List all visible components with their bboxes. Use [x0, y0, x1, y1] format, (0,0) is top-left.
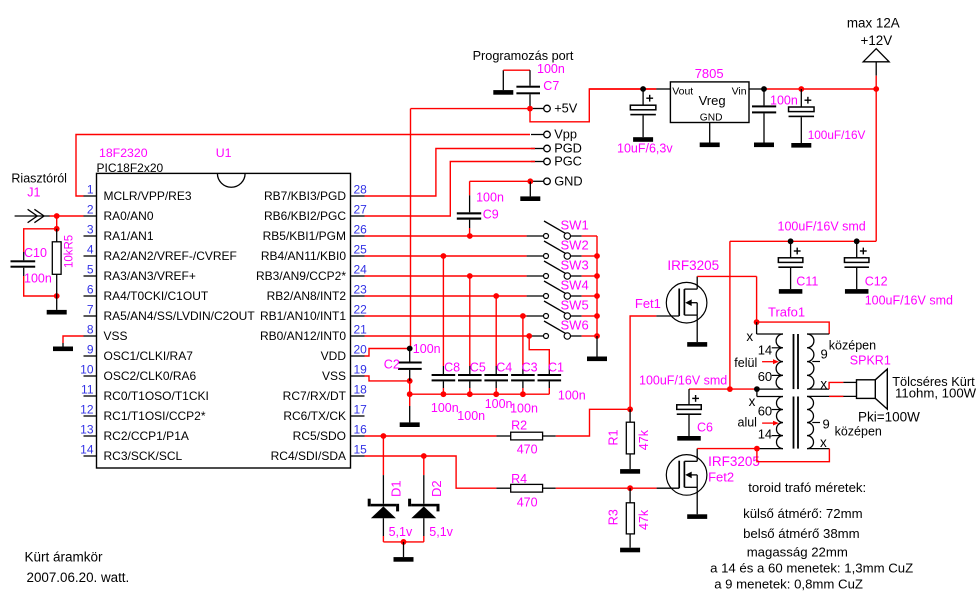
svg-text:U1: U1	[216, 146, 232, 160]
svg-text:max 12A: max 12A	[847, 15, 900, 30]
svg-text:SW6: SW6	[561, 318, 589, 333]
svg-text:23: 23	[354, 283, 368, 297]
svg-text:PGC: PGC	[554, 154, 582, 169]
svg-text:Riasztóról: Riasztóról	[11, 172, 67, 186]
svg-text:100n: 100n	[558, 389, 586, 403]
svg-text:100n: 100n	[431, 401, 459, 415]
svg-text:5,1v: 5,1v	[429, 525, 453, 539]
svg-text:RA0/AN0: RA0/AN0	[104, 209, 154, 223]
svg-text:PIC18F2x20: PIC18F2x20	[97, 161, 164, 175]
svg-text:RC1/T1OSI/CCP2*: RC1/T1OSI/CCP2*	[104, 409, 206, 423]
svg-text:100n: 100n	[413, 342, 441, 356]
svg-text:25: 25	[354, 243, 368, 257]
svg-text:20: 20	[354, 343, 368, 357]
svg-text:középen: középen	[835, 425, 882, 439]
svg-text:Vin: Vin	[732, 85, 747, 97]
svg-text:C11: C11	[796, 275, 818, 289]
svg-text:100uF/16V smd: 100uF/16V smd	[639, 374, 727, 388]
svg-text:toroid trafó méretek:: toroid trafó méretek:	[748, 480, 866, 495]
svg-text:RB2/AN8/INT2: RB2/AN8/INT2	[267, 289, 347, 303]
svg-text:RC4/SDI/SDA: RC4/SDI/SDA	[271, 449, 346, 463]
svg-text:100n: 100n	[476, 191, 504, 205]
svg-text:x: x	[820, 435, 827, 450]
svg-text:J1: J1	[27, 186, 40, 200]
svg-text:C12: C12	[865, 275, 888, 289]
svg-text:MCLR/VPP/RE3: MCLR/VPP/RE3	[104, 189, 192, 203]
svg-text:2007.06.20. watt.: 2007.06.20. watt.	[27, 570, 130, 585]
svg-text:a 9 menetek: 0,8mm CuZ: a 9 menetek: 0,8mm CuZ	[714, 576, 863, 591]
svg-text:100uF/16V smd: 100uF/16V smd	[865, 294, 953, 308]
svg-text:R5: R5	[64, 235, 76, 250]
svg-text:Vreg: Vreg	[699, 93, 726, 108]
svg-text:10k: 10k	[64, 249, 76, 268]
svg-text:26: 26	[354, 223, 368, 237]
svg-text:alul: alul	[738, 416, 757, 430]
svg-text:OSC2/CLK0/RA6: OSC2/CLK0/RA6	[104, 369, 197, 383]
svg-text:11ohm, 100W: 11ohm, 100W	[895, 386, 977, 401]
svg-text:28: 28	[354, 183, 368, 197]
svg-text:magasság 22mm: magasság 22mm	[747, 544, 848, 559]
svg-text:SPKR1: SPKR1	[850, 353, 891, 367]
svg-text:x: x	[820, 377, 827, 392]
svg-text:R2: R2	[511, 419, 527, 433]
svg-text:C2: C2	[384, 358, 400, 372]
svg-text:Vpp: Vpp	[554, 127, 577, 142]
svg-text:21: 21	[354, 323, 368, 337]
svg-text:18: 18	[354, 383, 368, 397]
svg-text:8: 8	[87, 323, 94, 337]
svg-text:x: x	[746, 329, 753, 344]
svg-text:60: 60	[758, 369, 772, 384]
svg-text:27: 27	[354, 203, 368, 217]
svg-text:7805: 7805	[695, 66, 724, 81]
svg-text:VSS: VSS	[104, 329, 128, 343]
svg-text:12: 12	[80, 403, 94, 417]
svg-text:Pki=100W: Pki=100W	[858, 410, 920, 425]
svg-text:IRF3205: IRF3205	[708, 454, 760, 469]
svg-text:Fet1: Fet1	[635, 296, 661, 311]
svg-text:RA4/T0CKI/C1OUT: RA4/T0CKI/C1OUT	[104, 289, 209, 303]
svg-text:RB3/AN9/CCP2*: RB3/AN9/CCP2*	[256, 269, 346, 283]
svg-text:+5V: +5V	[554, 101, 578, 116]
svg-text:RA1/AN1: RA1/AN1	[104, 229, 154, 243]
svg-text:22: 22	[354, 303, 368, 317]
svg-text:9: 9	[87, 343, 94, 357]
svg-text:14: 14	[80, 443, 94, 457]
svg-text:Trafo1: Trafo1	[768, 305, 805, 320]
svg-text:R4: R4	[511, 472, 527, 486]
svg-text:C5: C5	[470, 361, 486, 375]
svg-text:17: 17	[354, 403, 368, 417]
svg-text:13: 13	[80, 423, 94, 437]
svg-text:C10: C10	[24, 246, 47, 260]
svg-text:belső átmérő 38mm: belső átmérő 38mm	[743, 526, 860, 541]
svg-text:RB7/KBI3/PGD: RB7/KBI3/PGD	[264, 189, 346, 203]
svg-text:6: 6	[87, 283, 94, 297]
svg-text:+12V: +12V	[861, 33, 893, 48]
svg-text:10: 10	[80, 363, 94, 377]
svg-text:x: x	[749, 394, 756, 409]
svg-text:4: 4	[87, 243, 94, 257]
svg-text:RC3/SCK/SCL: RC3/SCK/SCL	[104, 449, 183, 463]
svg-text:C7: C7	[543, 79, 559, 93]
svg-text:100n: 100n	[537, 62, 565, 76]
svg-text:RC5/SDO: RC5/SDO	[293, 429, 346, 443]
svg-text:47k: 47k	[637, 509, 651, 530]
svg-text:7: 7	[87, 303, 94, 317]
svg-text:9: 9	[823, 417, 830, 432]
svg-text:D1: D1	[389, 480, 404, 497]
svg-text:16: 16	[354, 423, 368, 437]
svg-text:D2: D2	[429, 480, 444, 497]
svg-text:SW4: SW4	[561, 278, 589, 293]
svg-text:470: 470	[517, 442, 538, 456]
svg-text:100n: 100n	[770, 94, 798, 108]
svg-text:IRF3205: IRF3205	[667, 258, 719, 273]
svg-text:RB0/AN12/INT0: RB0/AN12/INT0	[260, 329, 346, 343]
svg-text:RA3/AN3/VREF+: RA3/AN3/VREF+	[104, 269, 196, 283]
svg-text:100uF/16V smd: 100uF/16V smd	[778, 220, 866, 234]
svg-text:RB5/KBI1/PGM: RB5/KBI1/PGM	[263, 229, 346, 243]
svg-text:külső átmérő: 72mm: külső átmérő: 72mm	[743, 506, 862, 521]
svg-text:R3: R3	[607, 509, 621, 525]
svg-text:C9: C9	[483, 207, 499, 221]
svg-text:felül: felül	[734, 356, 757, 370]
svg-text:SW3: SW3	[561, 258, 589, 273]
svg-text:SW1: SW1	[561, 218, 589, 233]
svg-text:15: 15	[354, 443, 368, 457]
svg-text:RB6/KBI2/PGC: RB6/KBI2/PGC	[264, 209, 346, 223]
svg-text:18F2320: 18F2320	[99, 146, 148, 160]
svg-text:RC2/CCP1/P1A: RC2/CCP1/P1A	[104, 429, 189, 443]
svg-text:100n: 100n	[510, 401, 538, 415]
svg-text:470: 470	[517, 496, 538, 510]
svg-text:Programozás port: Programozás port	[473, 49, 574, 63]
svg-text:2: 2	[87, 203, 94, 217]
svg-text:C8: C8	[444, 361, 460, 375]
svg-text:100uF/16V: 100uF/16V	[808, 128, 866, 142]
svg-text:RA5/AN4/SS/LVDIN/C2OUT: RA5/AN4/SS/LVDIN/C2OUT	[104, 309, 256, 323]
svg-text:RB4/AN11/KBI0: RB4/AN11/KBI0	[261, 249, 346, 263]
svg-text:10uF/6,3v: 10uF/6,3v	[617, 142, 673, 156]
svg-text:R1: R1	[607, 429, 621, 445]
svg-text:RC7/RX/DT: RC7/RX/DT	[283, 389, 347, 403]
svg-text:OSC1/CLKI/RA7: OSC1/CLKI/RA7	[104, 349, 194, 363]
svg-text:GND: GND	[700, 113, 723, 124]
svg-text:5: 5	[87, 263, 94, 277]
svg-text:Kürt áramkör: Kürt áramkör	[25, 550, 104, 565]
svg-text:11: 11	[81, 383, 94, 397]
svg-text:RC6/TX/CK: RC6/TX/CK	[283, 409, 346, 423]
svg-text:24: 24	[354, 263, 368, 277]
svg-text:C6: C6	[697, 421, 713, 435]
svg-text:60: 60	[758, 404, 772, 419]
svg-text:1: 1	[87, 183, 94, 197]
svg-text:GND: GND	[554, 173, 582, 188]
svg-text:RB1/AN10/INT1: RB1/AN10/INT1	[260, 309, 346, 323]
svg-text:a 14 és a 60 menetek: 1,3mm Cu: a 14 és a 60 menetek: 1,3mm CuZ	[710, 560, 913, 575]
svg-text:100n: 100n	[485, 397, 513, 411]
svg-text:VDD: VDD	[321, 349, 347, 363]
svg-text:9: 9	[821, 347, 828, 362]
svg-text:RC0/T1OSO/T1CKI: RC0/T1OSO/T1CKI	[104, 389, 209, 403]
svg-text:47k: 47k	[637, 429, 651, 450]
svg-text:100n: 100n	[457, 409, 485, 423]
svg-text:Vout: Vout	[672, 85, 693, 97]
svg-text:SW2: SW2	[561, 238, 589, 253]
svg-text:14: 14	[758, 427, 772, 442]
svg-text:középen: középen	[829, 339, 876, 353]
svg-text:14: 14	[758, 343, 772, 358]
svg-text:VSS: VSS	[322, 369, 346, 383]
svg-text:C1: C1	[548, 361, 564, 375]
svg-text:3: 3	[87, 223, 94, 237]
svg-text:RA2/AN2/VREF-/CVREF: RA2/AN2/VREF-/CVREF	[104, 249, 237, 263]
svg-text:Fet2: Fet2	[708, 470, 734, 485]
svg-text:19: 19	[354, 363, 368, 377]
svg-text:C4: C4	[496, 361, 512, 375]
svg-text:100n: 100n	[24, 272, 52, 286]
svg-text:5,1v: 5,1v	[389, 525, 413, 539]
svg-text:C3: C3	[522, 361, 538, 375]
svg-text:SW5: SW5	[561, 298, 589, 313]
